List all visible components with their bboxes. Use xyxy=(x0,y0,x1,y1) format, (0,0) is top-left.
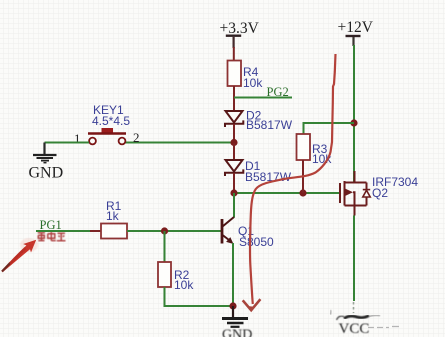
power +3.3V xyxy=(220,20,260,48)
resistor R1 xyxy=(90,199,135,239)
wire ground to key pin1 xyxy=(45,142,90,144)
wire junction to R2 xyxy=(164,231,166,262)
ground GND left xyxy=(29,143,64,182)
wire +12V rail xyxy=(353,45,355,182)
net label PG1 xyxy=(40,218,62,232)
svg-text:PG1: PG1 xyxy=(40,218,62,232)
diode D2 B5817W xyxy=(225,109,293,133)
transistor Q1 S8050 xyxy=(222,217,274,249)
svg-text:10k: 10k xyxy=(243,76,263,90)
wire junction2 to gate xyxy=(234,192,340,194)
wire +3.3V to R4 xyxy=(233,47,235,61)
key KEY1 xyxy=(88,103,130,144)
wire PG1 to R1 xyxy=(36,230,92,232)
junction emitter/R2 xyxy=(229,302,236,309)
power VCC xyxy=(331,302,400,337)
diode D1 B5817W xyxy=(225,159,292,184)
wire R2 to emitter node xyxy=(165,287,234,306)
annotation freehand curve xyxy=(243,54,336,311)
svg-text:10k: 10k xyxy=(174,278,194,292)
junction2 xyxy=(230,189,237,196)
wire junction to R3 xyxy=(304,123,355,134)
junction +12V/R3 xyxy=(350,119,357,126)
svg-text:Q2: Q2 xyxy=(372,186,388,200)
pin 1 of KEY1 xyxy=(74,131,81,146)
text 高电平 xyxy=(38,232,66,241)
svg-text:VCC: VCC xyxy=(339,321,370,337)
wire D2 to junction xyxy=(233,124,235,143)
resistor R4 xyxy=(228,61,264,91)
wire junction to D1 xyxy=(233,143,235,160)
net label PG2 xyxy=(267,85,289,99)
svg-text:4.5*4.5: 4.5*4.5 xyxy=(92,114,130,128)
junction R3 bottom xyxy=(299,189,306,196)
wire R1 to base xyxy=(127,230,221,232)
junction D2/D1/key xyxy=(230,139,237,146)
wire R4 to D2 xyxy=(233,86,235,111)
wire junction2 to Q1 collector xyxy=(233,193,235,218)
wire mosfet to VCC xyxy=(353,216,355,302)
wire emitter down xyxy=(232,243,234,306)
wire D1 to junction2 xyxy=(233,173,235,193)
pin 2 of KEY1 xyxy=(133,130,140,145)
resistor R2 xyxy=(158,262,194,292)
svg-text:1: 1 xyxy=(74,131,81,146)
svg-text:B5817W: B5817W xyxy=(246,118,293,132)
junction R1/R2 xyxy=(161,227,168,234)
svg-text:+12V: +12V xyxy=(338,19,374,36)
wire key to junction xyxy=(126,142,235,144)
svg-text:2: 2 xyxy=(133,130,140,145)
svg-text:1k: 1k xyxy=(106,209,120,223)
svg-text:GND: GND xyxy=(29,164,64,181)
svg-text:GND: GND xyxy=(222,327,252,337)
annotation arrow red xyxy=(1,238,38,272)
wire R3 to gate line xyxy=(302,160,304,193)
wire PG2 stub xyxy=(234,97,292,99)
svg-text:S8050: S8050 xyxy=(239,235,274,249)
ground GND bottom xyxy=(222,306,252,337)
power +12V xyxy=(338,19,374,46)
resistor R3 xyxy=(297,134,333,166)
mosfet Q2 IRF7304 xyxy=(340,171,418,216)
